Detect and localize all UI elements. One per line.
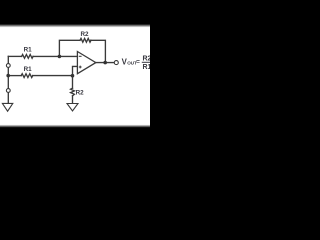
svg-text:=: = xyxy=(136,59,140,66)
output terminal (open circle) xyxy=(114,61,118,65)
input terminal lower (open circle) xyxy=(6,89,10,93)
resistor R1 bottom zigzag xyxy=(21,74,32,78)
fraction bar xyxy=(142,61,150,63)
wire left input rail xyxy=(7,56,9,103)
wire feedback from R2 to output node xyxy=(91,40,106,62)
input terminal upper (open circle) xyxy=(6,64,10,68)
wire bottom row from R1 to node B xyxy=(33,75,73,77)
white content band xyxy=(0,27,150,125)
wire op-amp output to terminal xyxy=(96,62,115,64)
resistor R2 feedback zigzag xyxy=(80,38,91,42)
ground center xyxy=(67,104,78,112)
wire node B down to R2 xyxy=(72,76,74,89)
svg-text:R2: R2 xyxy=(81,31,90,38)
svg-text:R1: R1 xyxy=(143,64,151,71)
ground left xyxy=(2,103,12,111)
op-amp inverting pin minus xyxy=(79,55,82,57)
resistor R1 top zigzag xyxy=(22,55,33,59)
op-amp non-inverting pin plus xyxy=(79,66,82,69)
output node junction dot xyxy=(103,61,107,65)
op-amp U1 xyxy=(77,52,95,74)
wire top row from rail to R1 xyxy=(8,55,21,57)
svg-text:R1: R1 xyxy=(24,47,33,54)
resistor R2 shunt zigzag (vertical) xyxy=(71,88,75,96)
node A junction dot (feedback tap) xyxy=(58,55,62,59)
wire feedback riser from node A xyxy=(59,40,80,56)
wire top row from R1 to inverting input xyxy=(33,55,77,57)
wire node B to non-inverting input xyxy=(73,66,78,75)
svg-text:R2: R2 xyxy=(76,90,85,97)
svg-text:R2: R2 xyxy=(143,55,151,62)
node B junction dot (non-inverting tap) xyxy=(71,74,75,78)
svg-text:R1: R1 xyxy=(24,66,33,73)
wire bottom row from rail to R1 xyxy=(8,75,21,77)
wire R2 to ground xyxy=(72,96,74,103)
rail junction dot xyxy=(6,74,10,78)
